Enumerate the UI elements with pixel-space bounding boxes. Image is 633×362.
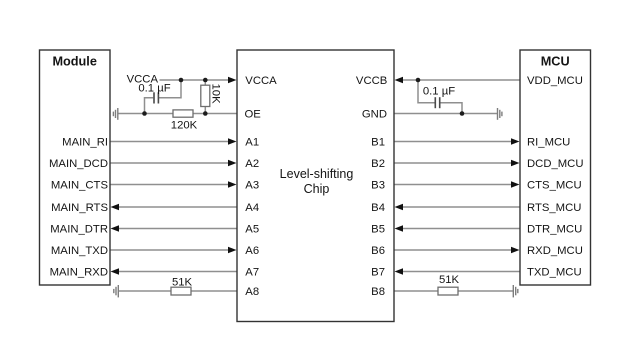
svg-text:A1: A1 — [245, 137, 259, 149]
svg-text:MAIN_CTS: MAIN_CTS — [51, 180, 109, 192]
svg-text:MAIN_RXD: MAIN_RXD — [50, 267, 108, 279]
svg-text:B8: B8 — [371, 286, 385, 298]
svg-text:B6: B6 — [371, 245, 385, 257]
svg-text:120K: 120K — [171, 120, 198, 132]
svg-text:VCCB: VCCB — [356, 75, 387, 87]
svg-text:Module: Module — [52, 55, 96, 69]
svg-text:B2: B2 — [371, 158, 385, 170]
svg-text:DCD_MCU: DCD_MCU — [527, 158, 584, 170]
svg-text:Chip: Chip — [304, 182, 330, 196]
svg-text:0.1 µF: 0.1 µF — [423, 85, 455, 97]
svg-text:A6: A6 — [245, 245, 259, 257]
svg-text:RTS_MCU: RTS_MCU — [527, 202, 581, 214]
svg-text:10K: 10K — [210, 84, 222, 105]
svg-text:A2: A2 — [245, 158, 259, 170]
svg-text:Level-shifting: Level-shifting — [280, 167, 354, 181]
svg-text:CTS_MCU: CTS_MCU — [527, 180, 582, 192]
svg-text:B1: B1 — [371, 137, 385, 149]
svg-text:DTR_MCU: DTR_MCU — [527, 224, 582, 236]
svg-text:A4: A4 — [245, 202, 259, 214]
svg-text:RXD_MCU: RXD_MCU — [527, 245, 583, 257]
svg-text:VCCA: VCCA — [245, 75, 277, 87]
svg-text:MAIN_DCD: MAIN_DCD — [49, 158, 108, 170]
svg-text:RI_MCU: RI_MCU — [527, 137, 570, 149]
svg-text:0.1 µF: 0.1 µF — [138, 82, 170, 94]
svg-text:51K: 51K — [172, 276, 193, 288]
svg-text:B7: B7 — [371, 267, 385, 279]
svg-text:TXD_MCU: TXD_MCU — [527, 267, 582, 279]
svg-text:OE: OE — [245, 109, 262, 121]
svg-text:B3: B3 — [371, 180, 385, 192]
svg-text:A7: A7 — [245, 267, 259, 279]
svg-text:MAIN_DTR: MAIN_DTR — [50, 224, 108, 236]
svg-text:MCU: MCU — [541, 55, 570, 69]
svg-text:B4: B4 — [371, 202, 385, 214]
svg-text:MAIN_RI: MAIN_RI — [62, 137, 108, 149]
svg-text:51K: 51K — [439, 274, 460, 286]
svg-text:A8: A8 — [245, 286, 259, 298]
svg-text:VDD_MCU: VDD_MCU — [527, 75, 583, 87]
svg-text:GND: GND — [362, 109, 387, 121]
svg-text:MAIN_TXD: MAIN_TXD — [51, 245, 108, 257]
svg-text:A3: A3 — [245, 180, 259, 192]
svg-text:MAIN_RTS: MAIN_RTS — [51, 202, 108, 214]
svg-text:B5: B5 — [371, 224, 385, 236]
svg-text:A5: A5 — [245, 224, 259, 236]
